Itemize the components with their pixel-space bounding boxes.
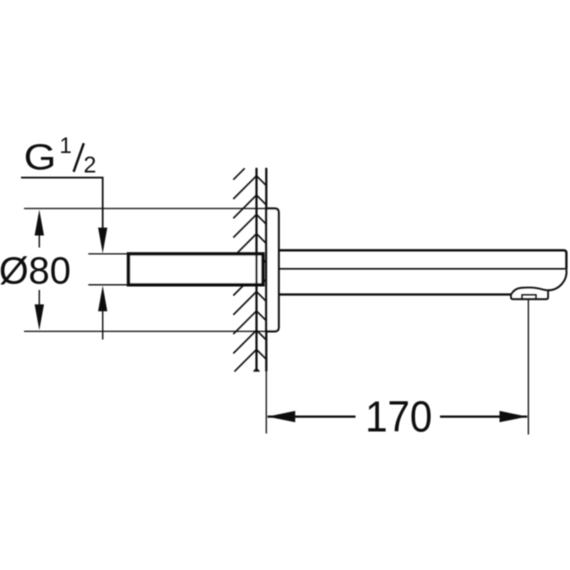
spout bottom edge	[280, 293, 511, 295]
G1/2 lower arrow (up) with tail	[98, 286, 107, 312]
mounting flange (rosette)	[266, 209, 278, 332]
170 dimension line + arrows	[268, 416, 356, 418]
diameter 80 bottom extension line	[24, 330, 266, 332]
spout middle line	[280, 268, 566, 270]
170 left extension line	[265, 371, 267, 433]
threaded pipe connector	[129, 254, 264, 285]
diameter 80 dimension line + arrows	[35, 210, 44, 236]
spout tip concave underside	[548, 269, 566, 290]
G 1/2 leader line	[21, 178, 103, 228]
pipe diameter extension lines	[88, 253, 127, 255]
svg-text:G: G	[24, 137, 57, 178]
G1/2 upper arrow (down)	[98, 228, 107, 254]
svg-text:Ø80: Ø80	[0, 250, 71, 292]
wall line 1 (outer surface)	[255, 168, 257, 372]
wall line 2 (finished surface)	[265, 168, 267, 372]
diameter 80 top extension line	[24, 208, 266, 210]
spout top edge	[280, 250, 567, 269]
aerator insert rectangle	[522, 295, 536, 299]
svg-text:170: 170	[365, 392, 432, 441]
outlet / aerator dome	[511, 288, 548, 300]
wall hatching (herringbone)	[233, 168, 266, 371]
170 right extension line	[527, 300, 529, 435]
svg-text:2: 2	[84, 151, 97, 177]
svg-text:1: 1	[60, 133, 72, 158]
